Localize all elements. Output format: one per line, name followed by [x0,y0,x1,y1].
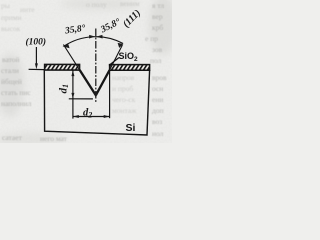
svg-text:крб: крб [152,23,163,32]
svg-text:наполнил: наполнил [1,99,32,108]
paper background [0,0,172,143]
svg-text:о полу: о полу [86,0,107,9]
labels [26,8,144,134]
arc center-right arrowhead [96,35,102,39]
svg-text:Si: Si [126,122,136,134]
svg-text:воз: воз [152,117,162,126]
svg-text:е пр: е пр [145,34,158,43]
svg-text:чего-ск: чего-ск [112,95,136,104]
substrate outline (Si wafer) [44,70,149,135]
right wall extension line above surface [110,45,123,70]
svg-text:йбщей: йбщей [1,77,22,86]
svg-text:прими: прими [1,13,22,22]
d2 left extension line [72,99,74,119]
SiO2 label leader [109,58,119,66]
surface extension line (left, for (100) arrow) [29,68,45,70]
d1 lower extension line [69,98,93,100]
vertical centerline (100 axis), dash-dot [95,29,97,103]
svg-text:осн: осн [152,84,163,93]
d1 dimension line [72,70,74,98]
paper blotches [0,0,177,145]
svg-text:вров: вров [152,73,167,82]
svg-text:инте: инте [20,5,35,14]
svg-text:зов: зов [152,45,163,54]
surface line under left mask [44,69,79,71]
svg-text:стали: стали [1,66,19,75]
svg-text:сатает: сатает [2,133,23,142]
svg-text:(100): (100) [26,36,47,47]
svg-text:монтаж: монтаж [112,106,137,115]
left wall extension line above surface [63,45,79,70]
surface line under right mask [110,69,150,71]
d2 right extension line [109,70,111,118]
V-groove right wall (111) [96,70,110,95]
d2 right arrowhead [104,115,110,118]
svg-text:пол: пол [150,56,162,65]
svg-text:напров: напров [112,73,135,82]
SiO2 mask block left [45,64,80,70]
bleed-through text fragments (scan artifacts) [1,1,167,143]
arc left arrowhead [63,43,70,48]
(100) leader arrow [35,47,37,67]
svg-text:высок: высок [1,24,21,33]
d1 top arrowhead [71,70,74,76]
d2 left arrowhead [73,115,79,118]
SiO2 mask block right [110,65,150,71]
svg-text:него мат: него мат [40,134,68,143]
d2 dimension line [73,116,110,118]
svg-text:стать пис: стать пис [1,88,31,97]
(100) arrowhead [35,63,38,69]
svg-text:вер: вер [152,12,163,21]
svg-text:я тл: я тл [152,1,164,10]
d1 bottom arrowhead [71,93,74,99]
main drawing [29,29,150,136]
arc right arrowhead [118,43,124,48]
svg-text:доп: доп [152,106,164,115]
svg-text:ватой: ватой [2,55,20,64]
V-groove left wall (111) [80,70,96,95]
arrowheads [35,35,124,118]
angle dimension arc [64,37,123,46]
svg-text:и проб: и проб [112,84,133,93]
svg-text:ры: ры [1,1,10,10]
arc center-left arrowhead [89,35,95,39]
svg-text:нол: нол [152,129,164,138]
svg-text:веним: веним [120,0,140,8]
V-groove apex blob [93,93,98,98]
svg-text:ени: ени [152,95,163,104]
